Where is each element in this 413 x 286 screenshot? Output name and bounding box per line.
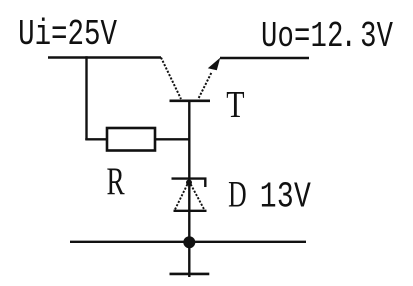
node: junction dot (183, 236, 195, 248)
transistor T: emitter diagonal with arrow (199, 73, 212, 99)
transistor T: base bar (170, 100, 211, 103)
svg-text:Uo=12.3V: Uo=12.3V (261, 15, 394, 57)
label T (226, 85, 244, 126)
svg-text:T: T (226, 85, 244, 126)
wire: base vertical down to zener and bottom rail (188, 101, 190, 242)
zener diode D: apex junction blob (186, 180, 192, 186)
label Ui=25V (18, 14, 117, 56)
label Uo=12.3V (261, 15, 394, 57)
svg-text:D: D (228, 174, 247, 215)
wire: resistor left lead (85, 138, 107, 140)
zener diode D: anode base line (174, 210, 207, 212)
wire: left vertical drop from input rail (85, 56, 87, 140)
zener diode D: cathode bar with right tick (172, 179, 206, 187)
wire: bottom rail (70, 241, 306, 243)
ground bar (170, 273, 210, 276)
resistor R body (107, 128, 155, 151)
label D 13V (228, 174, 247, 215)
label R (107, 160, 126, 203)
wire: top-right output rail (220, 57, 309, 59)
zener diode D: triangle sides (175, 181, 205, 210)
svg-text:13V: 13V (260, 176, 312, 217)
wire: resistor right lead (155, 138, 190, 140)
svg-text:R: R (107, 160, 126, 203)
svg-text:Ui=25V: Ui=25V (18, 14, 117, 56)
wire: top-left input rail (48, 56, 161, 58)
wire: ground stem (188, 242, 190, 277)
transistor T: collector diagonal (161, 58, 181, 100)
